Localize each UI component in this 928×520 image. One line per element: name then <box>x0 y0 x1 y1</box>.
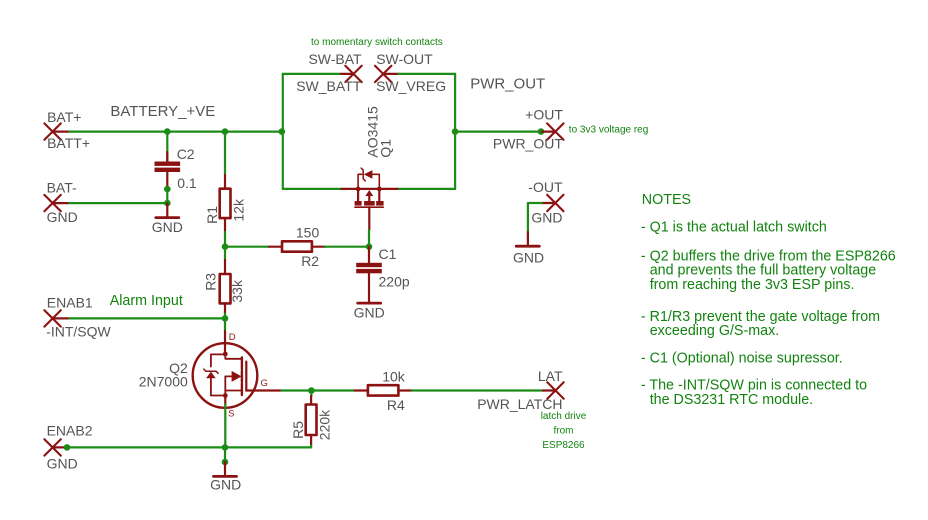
junction BAT- node <box>164 200 171 207</box>
net name PWR_LATCH <box>477 396 562 412</box>
net name GND (BAT-) <box>47 209 78 225</box>
transistor Q2 2N7000 N-MOSFET <box>193 331 282 408</box>
label GND (below C2) <box>152 219 183 235</box>
net name GND (ENAB2) <box>47 455 78 471</box>
label GND (Q2 source) <box>210 477 241 493</box>
svg-text:GND: GND <box>531 210 562 226</box>
value 10k <box>382 368 406 384</box>
pin X ENAB2 <box>44 439 60 455</box>
svg-text:S: S <box>228 409 234 420</box>
ground GND (-OUT) <box>516 232 539 246</box>
pin X LAT <box>547 382 563 398</box>
svg-text:LAT: LAT <box>538 368 563 384</box>
net label PWR_OUT (top) <box>470 76 545 93</box>
label ENAB2 <box>47 422 93 438</box>
capacitor C2 <box>155 132 181 190</box>
resistor R4 <box>355 385 412 395</box>
label GND (C1) <box>354 305 385 321</box>
pin stub SW-BAT <box>341 73 354 75</box>
svg-text:R1: R1 <box>204 206 220 224</box>
resistor R2 <box>269 241 325 251</box>
wire BATTERY_+VE horizontal from BAT+ pin to switch-box left <box>68 131 283 133</box>
label LAT <box>538 368 563 384</box>
svg-text:ENAB2: ENAB2 <box>47 422 93 438</box>
label SW-OUT <box>376 51 433 67</box>
junction battery line / box left <box>279 128 286 135</box>
ground GND (C1) <box>358 302 381 305</box>
label C2 <box>177 146 195 162</box>
wire node to Q2 drain <box>224 318 226 331</box>
svg-text:33k: 33k <box>229 279 245 303</box>
wire Q2 source down <box>224 405 226 448</box>
wire switch-box left vertical <box>282 74 284 189</box>
wire C2 to BAT- node <box>166 189 168 203</box>
value 12k <box>230 198 246 222</box>
label R3 <box>203 273 219 291</box>
svg-text:BATTERY_+VE: BATTERY_+VE <box>110 103 215 120</box>
pin name D <box>229 332 236 343</box>
junction battery line / R1 <box>222 128 229 135</box>
junction battery line / C2 <box>164 128 171 135</box>
junction before +OUT pin <box>538 128 545 135</box>
svg-text:Alarm Input: Alarm Input <box>110 293 183 309</box>
junction +OUT branch on box right <box>452 128 459 135</box>
label ENAB1 <box>47 295 93 311</box>
wire switch-box right vertical <box>454 74 456 189</box>
label +OUT <box>525 107 563 123</box>
comment latch drive <box>541 411 587 422</box>
label SW-BAT <box>308 51 362 67</box>
svg-text:SW-BAT: SW-BAT <box>308 51 362 67</box>
junction ground node <box>222 459 229 466</box>
svg-text:D: D <box>229 332 236 343</box>
label R2 <box>301 253 319 269</box>
resistor R3 <box>220 247 231 319</box>
junction gate/R4/R5 node <box>308 387 315 394</box>
svg-text:latch drive: latch drive <box>541 411 587 422</box>
svg-text:to momentary switch contacts: to momentary switch contacts <box>311 37 443 48</box>
wire node to R4 <box>311 389 354 391</box>
wire BAT- horizontal <box>68 202 168 204</box>
junction C2 bottom <box>164 186 171 193</box>
value 33k <box>229 279 245 303</box>
pin stub SW-OUT <box>383 73 398 75</box>
svg-text:SW_BATT: SW_BATT <box>296 78 362 94</box>
value 2N7000 <box>139 374 188 390</box>
junction ENAB2 pin <box>64 444 71 451</box>
value 220k <box>317 409 333 440</box>
svg-text:C1: C1 <box>379 246 397 262</box>
wire node to R2 <box>225 246 269 248</box>
svg-text:GND: GND <box>354 305 385 321</box>
wire Q1 gate down <box>368 230 370 247</box>
pin X BAT- <box>44 195 60 211</box>
wire switch-box top left segment <box>283 73 341 75</box>
wire R5 bend to ENAB2 line <box>67 445 311 447</box>
pin stub BAT+ <box>53 131 68 133</box>
svg-text:- C1 (Optional) noise supresso: - C1 (Optional) noise supressor. <box>641 350 843 366</box>
pin stub ENAB2 <box>53 446 67 448</box>
label BAT- <box>47 179 77 195</box>
pin X +OUT <box>547 123 563 139</box>
junction C1/gate node <box>366 243 373 250</box>
wire switch-box top right segment <box>399 73 456 75</box>
junction R1/R2/R3 node <box>222 243 229 250</box>
svg-text:BAT-: BAT- <box>47 179 77 195</box>
net name PWR_OUT <box>493 136 563 152</box>
label R1 <box>204 206 220 224</box>
pin stub ENAB1 <box>53 317 68 319</box>
wire ENAB1 horizontal <box>68 317 225 319</box>
wire R4 to LAT <box>412 389 543 391</box>
svg-text:SW_VREG: SW_VREG <box>376 78 446 94</box>
junction Q2 source / ENAB2 <box>222 444 229 451</box>
wire node to ground node <box>224 447 226 462</box>
svg-text:220k: 220k <box>317 409 333 440</box>
svg-text:ENAB1: ENAB1 <box>47 295 93 311</box>
net name GND (-OUT) <box>531 210 562 226</box>
net name -INT/SQW <box>46 324 111 340</box>
wire +OUT horizontal <box>455 131 542 133</box>
svg-text:the DS3231 RTC module.: the DS3231 RTC module. <box>650 392 813 408</box>
pin stub -OUT <box>542 202 556 204</box>
notes text block <box>641 192 896 408</box>
pin name S <box>228 409 234 420</box>
svg-text:10k: 10k <box>382 368 406 384</box>
capacitor C1 <box>356 247 382 303</box>
svg-text:PWR_OUT: PWR_OUT <box>470 76 545 93</box>
transistor Q1 AO3415 P-MOSFET <box>342 168 398 230</box>
comment ESP8266 <box>542 440 585 451</box>
svg-text:R3: R3 <box>203 273 219 291</box>
value 150 <box>296 225 320 241</box>
svg-text:GND: GND <box>47 455 78 471</box>
comment from <box>554 426 574 437</box>
ground GND (Q2 source) <box>214 462 237 476</box>
comment to momentary switch contacts <box>311 37 443 48</box>
resistor R1 <box>220 132 231 247</box>
svg-text:BAT+: BAT+ <box>47 109 81 125</box>
svg-text:BATT+: BATT+ <box>47 135 90 151</box>
svg-text:R2: R2 <box>301 253 319 269</box>
svg-text:exceeding G/S-max.: exceeding G/S-max. <box>650 323 780 339</box>
svg-text:ESP8266: ESP8266 <box>542 440 585 451</box>
label R4 <box>387 397 405 413</box>
pin stub BAT- <box>53 202 68 204</box>
svg-text:GND: GND <box>47 209 78 225</box>
svg-text:GND: GND <box>513 249 544 265</box>
label Q2 <box>169 360 188 376</box>
pin X ENAB1 <box>44 310 60 326</box>
net name SW_VREG <box>376 78 446 94</box>
label Q1 <box>377 139 393 158</box>
pin stub +OUT <box>542 131 555 133</box>
svg-text:NOTES: NOTES <box>642 192 691 208</box>
junction ENAB1/R3/Q2 node <box>222 315 229 322</box>
svg-text:- Q1 is the actual latch switc: - Q1 is the actual latch switch <box>641 220 827 236</box>
label GND (under -OUT ground) <box>513 249 544 265</box>
ground GND (below C2) <box>156 203 179 218</box>
svg-text:from: from <box>554 426 574 437</box>
pin X -OUT <box>547 195 563 211</box>
pin X SW-OUT <box>375 66 391 82</box>
net name SW_BATT <box>296 78 362 94</box>
net label BATTERY_+VE <box>110 103 215 120</box>
svg-text:150: 150 <box>296 225 320 241</box>
svg-text:PWR_OUT: PWR_OUT <box>493 136 563 152</box>
comment to 3v3 voltage reg <box>569 125 649 136</box>
label AO3415 <box>364 106 380 158</box>
pin name G <box>261 378 268 389</box>
svg-text:+OUT: +OUT <box>525 107 563 123</box>
svg-text:G: G <box>261 378 268 389</box>
svg-text:C2: C2 <box>177 146 195 162</box>
label C1 <box>379 246 397 262</box>
svg-text:-OUT: -OUT <box>528 179 563 195</box>
svg-text:PWR_LATCH: PWR_LATCH <box>477 396 562 412</box>
label R5 <box>290 421 306 439</box>
svg-text:SW-OUT: SW-OUT <box>376 51 433 67</box>
pin X BAT+ <box>44 123 60 139</box>
svg-text:Q1: Q1 <box>377 139 393 158</box>
pin X SW-BAT <box>345 66 361 82</box>
svg-text:R4: R4 <box>387 397 405 413</box>
comment Alarm Input <box>110 293 183 309</box>
pin stub LAT <box>543 389 556 391</box>
svg-text:-INT/SQW: -INT/SQW <box>46 324 111 340</box>
wire Q2 gate to node <box>281 389 311 391</box>
net name BATT+ <box>47 135 90 151</box>
value 0.1 <box>177 175 197 191</box>
wire Q1 drain to box right <box>398 188 456 190</box>
svg-text:R5: R5 <box>290 421 306 439</box>
svg-text:0.1: 0.1 <box>177 175 197 191</box>
value 220p <box>379 273 410 289</box>
label -OUT <box>528 179 563 195</box>
svg-text:GND: GND <box>210 477 241 493</box>
svg-text:12k: 12k <box>230 198 246 222</box>
svg-text:2N7000: 2N7000 <box>139 374 188 390</box>
svg-text:GND: GND <box>152 219 183 235</box>
resistor R5 <box>306 391 317 446</box>
svg-text:from reaching the 3v3 ESP pins: from reaching the 3v3 ESP pins. <box>650 277 855 293</box>
wire switch-box bottom left to Q1 source <box>283 188 342 190</box>
wire -OUT bend to ground <box>528 203 542 232</box>
label BAT+ <box>47 109 81 125</box>
svg-text:220p: 220p <box>379 273 410 289</box>
wire R2 to C1/gate node <box>325 246 369 248</box>
svg-text:to 3v3 voltage reg: to 3v3 voltage reg <box>569 125 649 136</box>
